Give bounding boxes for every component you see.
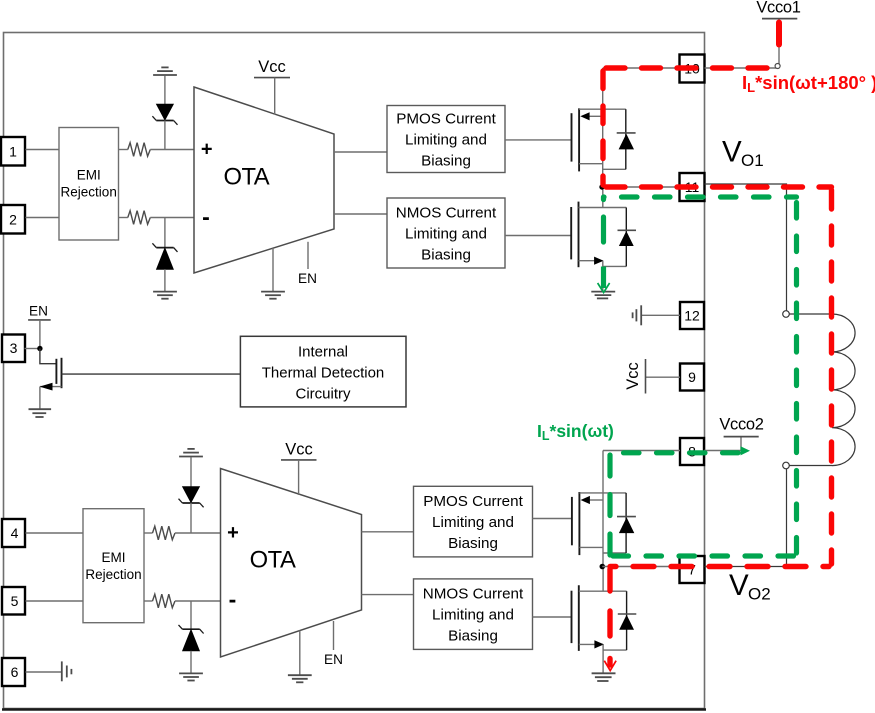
svg-text:EMI: EMI bbox=[101, 550, 125, 565]
wire pin4 to EMI2 bbox=[26, 532, 84, 534]
svg-text:Biasing: Biasing bbox=[448, 628, 498, 645]
wire EMI1 to R1 bbox=[119, 149, 128, 151]
body diode of Q1 bbox=[617, 109, 636, 169]
wire Q5 drain to thermal block bbox=[62, 373, 241, 375]
wire gnd to zener D3 bbox=[190, 457, 192, 487]
wire Q5 source to ground bbox=[39, 387, 41, 409]
ground of OTA2 bbox=[288, 630, 312, 682]
wire riser node VO2 to Q4 to ground bbox=[602, 567, 604, 674]
svg-text:4: 4 bbox=[11, 525, 19, 541]
wire R to OTA1 - input bbox=[150, 217, 194, 219]
resistor R (pin4 line) bbox=[153, 526, 176, 540]
resistor R (pin2 line) bbox=[128, 211, 151, 225]
wire lower node to pin 7 bbox=[705, 469, 787, 567]
wire zener D3 to + line bbox=[190, 503, 192, 533]
pin 12 bbox=[680, 302, 704, 329]
svg-text:PMOS Current: PMOS Current bbox=[423, 493, 523, 510]
wire riser pin10 to Q1 to node VO1 bbox=[602, 68, 604, 187]
op-amp OTA2 bbox=[221, 469, 362, 658]
svg-text:Limiting and: Limiting and bbox=[432, 607, 514, 624]
wire node to inductor L1 bbox=[789, 313, 832, 315]
pin 11 bbox=[680, 173, 705, 201]
svg-text:V: V bbox=[729, 569, 749, 602]
terminal node circle (bottom of load) bbox=[783, 462, 790, 469]
wire zener D4 to ground bbox=[190, 651, 192, 673]
wire pin5 to EMI2 bbox=[26, 600, 84, 602]
wire PMOS1 box to Q1 gate bbox=[505, 139, 572, 141]
EMI Rejection block U-EMI2 bbox=[83, 509, 144, 623]
wire pin 12 to ground bbox=[642, 314, 680, 316]
wire PMOS2 box to Q3 gate bbox=[533, 518, 572, 520]
EMI Rejection block U-EMI1 bbox=[59, 128, 119, 241]
wire R to OTA2 - input bbox=[175, 600, 221, 602]
resistor R (pin1 line) bbox=[128, 143, 151, 157]
wire pin 11 to load (external) bbox=[705, 184, 787, 311]
wire NMOS2 box to Q4 gate bbox=[533, 616, 572, 618]
svg-text:-: - bbox=[229, 586, 237, 612]
wire riser node VO1 to Q2 to ground bbox=[602, 187, 604, 291]
pin 3 bbox=[2, 335, 25, 363]
svg-text:Limiting and: Limiting and bbox=[432, 514, 514, 531]
svg-text:+: + bbox=[227, 522, 239, 544]
red current loop IL*sin(wt+180) bbox=[603, 23, 832, 671]
svg-text:-: - bbox=[202, 204, 210, 230]
green loop leg: above pin7 row bbox=[613, 553, 797, 558]
Internal Thermal Detection block bbox=[240, 336, 406, 407]
terminal node circle (top of load) bbox=[783, 311, 790, 318]
svg-text:OTA: OTA bbox=[223, 164, 269, 191]
red arrow stem bbox=[607, 659, 612, 666]
op-amp OTA1 bbox=[194, 87, 334, 273]
ground at pin 6 (sideways) bbox=[62, 661, 72, 681]
net label VO2 bbox=[729, 569, 771, 604]
pin 8 bbox=[680, 438, 704, 465]
wire pin6 to ground bbox=[26, 671, 62, 673]
wire pin 8 to Vcco2 bbox=[704, 437, 741, 451]
svg-text:EMI: EMI bbox=[77, 168, 101, 183]
svg-text:OTA: OTA bbox=[250, 547, 296, 574]
supply Vcc at pin 9 (rotated) bbox=[624, 359, 646, 394]
junction node pin3/EN bbox=[37, 346, 42, 351]
wire pin 7 to node VO2 bbox=[602, 566, 679, 568]
svg-text:Biasing: Biasing bbox=[448, 535, 498, 552]
transistor Q1 (PMOS output, top) bbox=[572, 108, 626, 171]
inverted ground (bottom channel top clamp) bbox=[179, 449, 203, 457]
green loop leg: through Q3 bbox=[607, 455, 612, 556]
transistor Q5 (EN NMOS) bbox=[40, 358, 62, 391]
svg-text:NMOS Current: NMOS Current bbox=[396, 205, 497, 222]
pin 1 bbox=[1, 137, 25, 166]
wire junction to Q5 gate bbox=[40, 349, 57, 364]
wire R to OTA1 + input bbox=[150, 149, 194, 151]
body diode of Q4 bbox=[618, 591, 637, 650]
Vcc supply of OTA2 bbox=[281, 441, 317, 496]
svg-text:Rejection: Rejection bbox=[61, 185, 117, 200]
svg-text:Circuitry: Circuitry bbox=[296, 386, 351, 403]
svg-text:1: 1 bbox=[9, 143, 17, 159]
wire EMI2 to R3 bbox=[144, 532, 153, 534]
wire node VO1 to pin 11 bbox=[603, 186, 680, 188]
red loop leg: pin10 row bbox=[606, 65, 776, 70]
junction node at VO2 bbox=[600, 564, 606, 570]
svg-text:5: 5 bbox=[11, 593, 19, 609]
svg-text:O1: O1 bbox=[741, 151, 764, 170]
body diode of Q3 bbox=[617, 493, 636, 553]
svg-text:Internal: Internal bbox=[298, 344, 348, 361]
resistor R (pin5 line) bbox=[153, 594, 176, 608]
PMOS Current Limiting block (bottom) bbox=[414, 486, 533, 557]
wire EMI1 to R2 bbox=[119, 217, 128, 219]
transistor Q2 (NMOS output, top) bbox=[571, 202, 626, 268]
green arrow into ground bbox=[598, 283, 610, 293]
svg-text:12: 12 bbox=[684, 308, 700, 324]
svg-text:V: V bbox=[722, 136, 742, 169]
svg-text:IL*sin(ωt): IL*sin(ωt) bbox=[537, 421, 614, 443]
pin 7 bbox=[680, 556, 705, 583]
zener diode D1 (clamp on + input) bbox=[152, 104, 177, 125]
green loop leg: through Q2 bbox=[601, 198, 606, 251]
zener diode D3 (clamp on + input) bbox=[179, 487, 204, 508]
IC boundary bbox=[2, 33, 706, 710]
red loop leg: through Q1 bbox=[600, 71, 605, 185]
svg-text:Rejection: Rejection bbox=[85, 567, 141, 582]
inductor L1 (load) bbox=[832, 314, 855, 466]
wire zener D1 to + line bbox=[164, 121, 166, 150]
ground of OTA1 bbox=[261, 248, 285, 299]
wire pin2 to EMI1 bbox=[26, 217, 60, 219]
pin 6 bbox=[2, 658, 25, 686]
pin 9 bbox=[680, 364, 704, 391]
wire OTA1 to NMOS1 box bbox=[334, 213, 387, 215]
svg-text:9: 9 bbox=[688, 369, 696, 385]
green loop leg: pin8 row bbox=[607, 450, 738, 455]
transistor Q3 (PMOS output, bottom) bbox=[572, 492, 626, 555]
ground under Q2 bbox=[591, 292, 615, 299]
inverted ground (top clamp) bbox=[153, 67, 177, 75]
supply Vcco2 bbox=[719, 416, 763, 437]
red loop leg: pin7 row bbox=[610, 564, 829, 569]
wire EMI2 to R4 bbox=[144, 600, 153, 602]
transistor Q4 (NMOS output, bottom) bbox=[572, 585, 627, 651]
svg-text:Vcc: Vcc bbox=[624, 362, 642, 390]
Vcc supply of OTA1 bbox=[254, 58, 290, 115]
svg-text:EN: EN bbox=[324, 652, 343, 667]
wire gnd to zener D1 bbox=[164, 76, 166, 105]
svg-text:+: + bbox=[201, 139, 213, 161]
wire pin 9 to Vcc bbox=[646, 376, 681, 378]
svg-text:Thermal Detection: Thermal Detection bbox=[262, 365, 385, 382]
wire OTA2 to NMOS2 box bbox=[362, 594, 414, 596]
wire zener D2 to ground bbox=[164, 269, 166, 291]
EN input of OTA2 bbox=[324, 621, 343, 667]
ground under Q5 bbox=[29, 409, 52, 417]
ground (bottom clamp) bbox=[153, 292, 177, 299]
svg-text:6: 6 bbox=[11, 664, 19, 680]
pin 5 bbox=[2, 587, 25, 615]
svg-text:2: 2 bbox=[9, 211, 17, 227]
svg-text:Vcco2: Vcco2 bbox=[719, 416, 763, 434]
svg-text:Vcc: Vcc bbox=[258, 58, 286, 76]
red loop leg: external down bbox=[829, 190, 834, 564]
EN input of OTA1 bbox=[298, 242, 317, 286]
wire Q3 drain to pin 8 bbox=[603, 450, 680, 452]
wire NMOS1 box to Q2 gate bbox=[505, 235, 571, 237]
wire - line down to zener D2 bbox=[164, 218, 166, 248]
NMOS Current Limiting block (top) bbox=[387, 198, 505, 268]
svg-text:IL*sin(ωt+180° ): IL*sin(ωt+180° ) bbox=[742, 72, 875, 95]
svg-text:EN: EN bbox=[29, 304, 48, 319]
wire OTA2 to PMOS2 box bbox=[362, 531, 414, 533]
green loop leg: pin11 row bbox=[604, 194, 797, 199]
svg-text:Biasing: Biasing bbox=[421, 247, 471, 264]
EN net label bbox=[28, 304, 51, 349]
svg-text:3: 3 bbox=[10, 340, 18, 356]
svg-text:EN: EN bbox=[298, 271, 317, 286]
wire Q1 drain to pin 10 bbox=[603, 67, 680, 69]
green arrow stem bbox=[601, 267, 606, 289]
ground at pin 12 (sideways) bbox=[633, 305, 642, 325]
pin 2 bbox=[1, 205, 25, 234]
PMOS Current Limiting block (top) bbox=[387, 106, 505, 173]
pin 4 bbox=[2, 519, 25, 547]
wire pin 10 to Vcco1 riser bbox=[705, 67, 780, 69]
wire - line down to zener D4 bbox=[190, 601, 192, 629]
zener diode D4 (clamp on - input) bbox=[179, 625, 204, 651]
NMOS Current Limiting block (bottom) bbox=[414, 579, 533, 650]
wire pin1 to EMI1 bbox=[26, 149, 60, 151]
green arrowhead at Vcco2 end bbox=[741, 446, 751, 455]
net label VO1 bbox=[722, 136, 764, 171]
supply Vcco1 bbox=[756, 0, 800, 19]
svg-text:Vcc: Vcc bbox=[285, 441, 313, 459]
junction node at VO1 bbox=[599, 184, 604, 189]
ground (bottom channel bottom clamp) bbox=[179, 673, 203, 680]
svg-text:PMOS Current: PMOS Current bbox=[396, 111, 496, 128]
green loop leg: external up bbox=[794, 200, 799, 553]
green current loop IL*sin(wt) bbox=[598, 197, 797, 556]
red loop leg: pin11 row bbox=[606, 184, 832, 189]
svg-text:O2: O2 bbox=[748, 585, 771, 604]
zener diode D2 (clamp on - input) bbox=[152, 243, 177, 269]
svg-text:NMOS Current: NMOS Current bbox=[423, 586, 524, 603]
wire R to OTA2 + input bbox=[175, 532, 221, 534]
svg-text:Vcco1: Vcco1 bbox=[756, 0, 800, 16]
wire OTA1 to PMOS1 box bbox=[334, 151, 387, 153]
red loop leg: through Q4 bbox=[607, 569, 612, 641]
ground under Q4 bbox=[592, 673, 616, 681]
pin 10 bbox=[680, 55, 705, 83]
svg-text:Biasing: Biasing bbox=[421, 153, 471, 170]
wire pin3 to junction bbox=[25, 348, 40, 350]
svg-text:Limiting and: Limiting and bbox=[405, 132, 487, 149]
body diode of Q2 bbox=[618, 208, 637, 267]
svg-text:Limiting and: Limiting and bbox=[405, 226, 487, 243]
node dot at Vcco1 corner bbox=[775, 64, 780, 69]
wire inductor to lower node bbox=[789, 465, 832, 467]
wire Vcco1 riser bbox=[778, 19, 780, 68]
wire riser pin8 to Q3 to node VO2 bbox=[602, 451, 604, 567]
